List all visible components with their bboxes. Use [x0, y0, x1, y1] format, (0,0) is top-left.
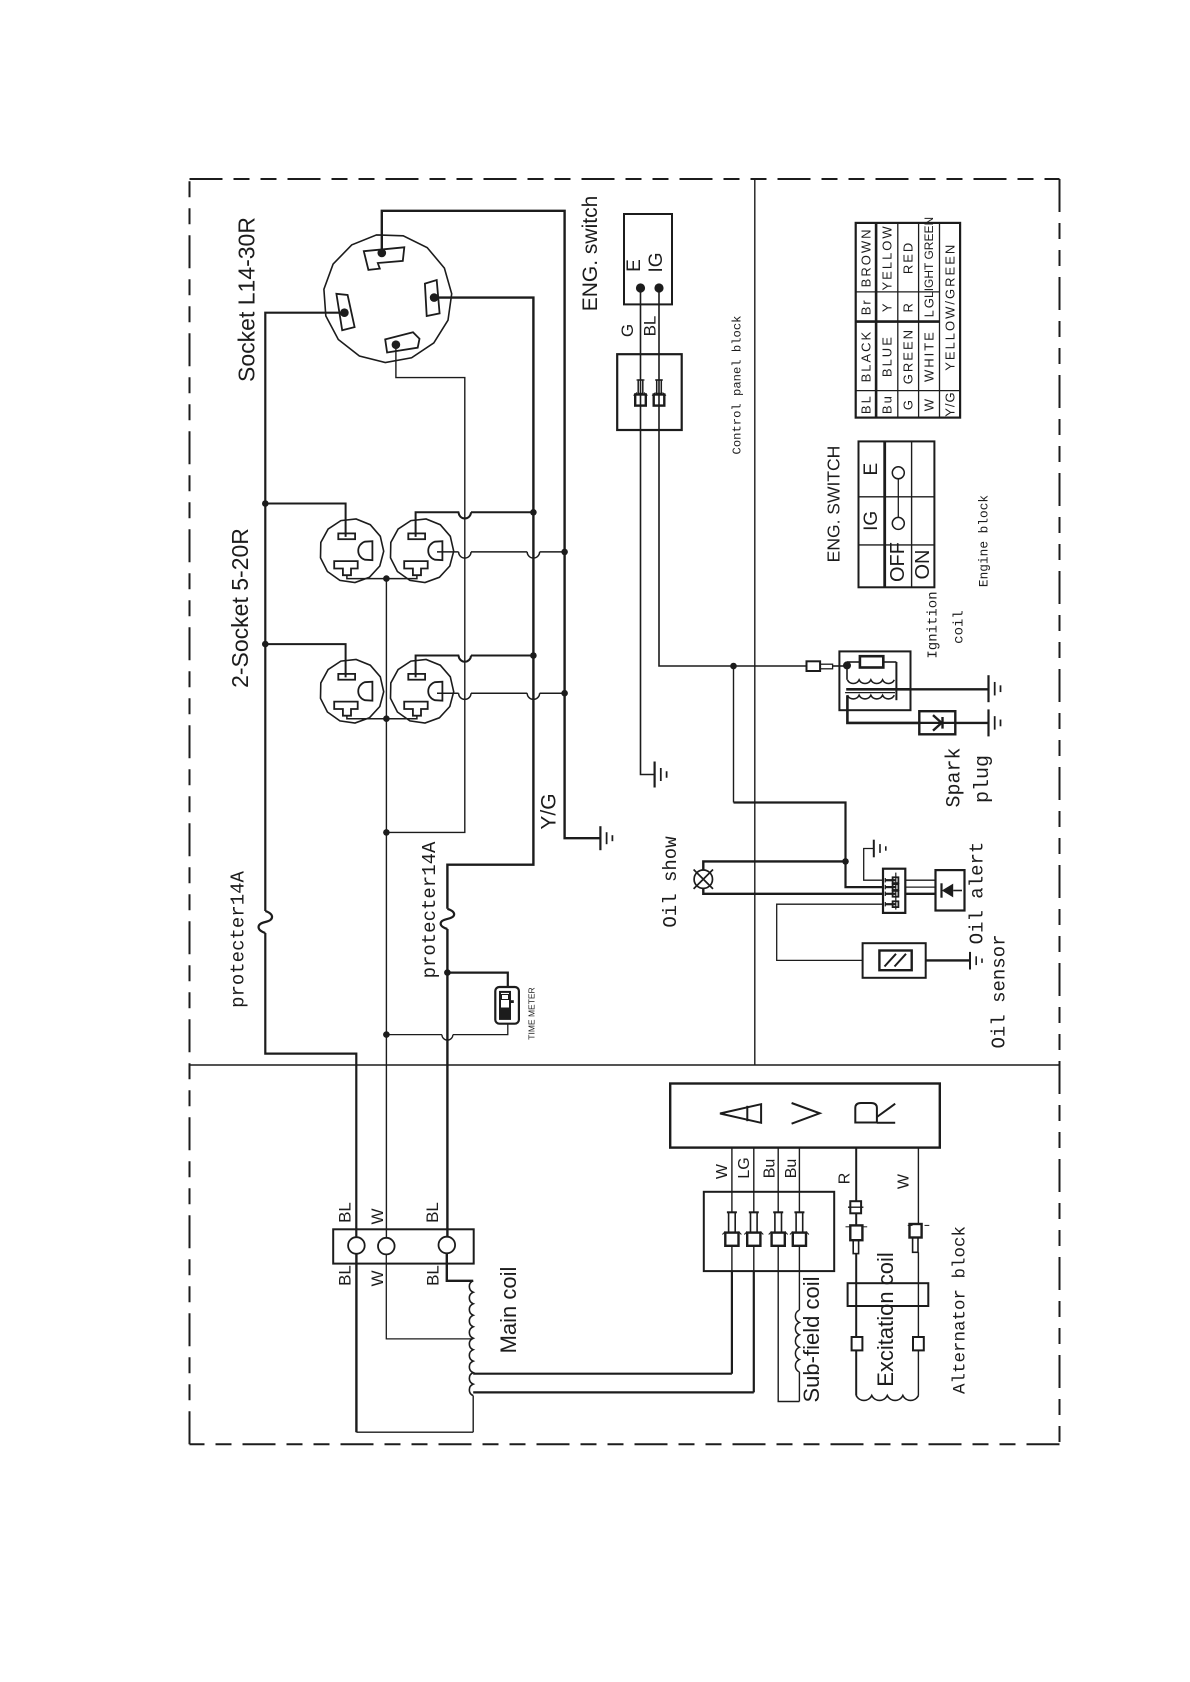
junction dots pair2	[262, 641, 269, 648]
L14-30R slot left	[336, 294, 354, 331]
junction dots pair1	[262, 500, 269, 507]
socket 5-20R pair1 left	[321, 519, 384, 583]
svg-text:W: W	[896, 1173, 913, 1189]
wire: pin4 to oil sensor	[777, 904, 883, 960]
svg-text:Y/G: Y/G	[942, 391, 957, 416]
svg-text:W: W	[368, 1208, 387, 1224]
wire W from AVR	[917, 1148, 919, 1224]
AVR letter A	[720, 1104, 761, 1123]
ground ignition	[987, 675, 989, 702]
svg-text:BLACK: BLACK	[858, 330, 873, 383]
oil connector pin	[884, 892, 886, 896]
connector pin G	[637, 379, 645, 381]
svg-text:Bu: Bu	[783, 1159, 800, 1179]
wire: L14 top slot to Y/G bus	[382, 211, 601, 838]
L14-30R slot L (top)	[364, 247, 405, 270]
svg-text:BL: BL	[858, 394, 873, 414]
oil connector pin	[884, 878, 886, 882]
svg-text:W: W	[368, 1270, 387, 1286]
svg-text:BLUE: BLUE	[879, 335, 894, 377]
svg-text:R: R	[901, 301, 916, 312]
ignition secondary left leg to spark plug	[847, 695, 920, 723]
svg-text:Br: Br	[858, 298, 873, 315]
wire: L14 right slot to BL bus	[434, 298, 533, 909]
oil show lamp	[694, 870, 712, 888]
ignition resistor	[846, 662, 848, 665]
R connector pair	[846, 1226, 851, 1228]
svg-text:G: G	[618, 324, 637, 337]
svg-text:LG: LG	[922, 296, 937, 317]
terminal dot E	[636, 283, 645, 292]
svg-text:G: G	[901, 398, 916, 410]
AVR letter R	[855, 1103, 877, 1123]
svg-text:BROWN: BROWN	[858, 227, 873, 287]
socket 5-20R pair2 right	[391, 660, 454, 724]
svg-text:coil: coil	[952, 610, 968, 644]
svg-text:protecter14A: protecter14A	[228, 870, 250, 1007]
AVR connector pin	[749, 1211, 759, 1213]
svg-text:LIGHT GREEN: LIGHT GREEN	[922, 217, 936, 298]
sub-field coil	[798, 1271, 800, 1310]
L14 terminal dots	[378, 249, 387, 258]
main coil tap to AVR W	[473, 1373, 732, 1375]
spark plug symbol	[933, 715, 942, 723]
svg-text:Bu: Bu	[879, 394, 894, 414]
socket 5-20R pair2 left	[321, 660, 384, 724]
wire: time meter bottom return	[453, 1024, 508, 1035]
svg-text:TIME METER: TIME METER	[527, 987, 537, 1039]
terminal circle 1	[348, 1237, 365, 1254]
oil connector pin	[884, 902, 886, 906]
wire: pair2 right top to BL bus	[416, 656, 460, 678]
svg-text:YELLOW/GREEN: YELLOW/GREEN	[942, 243, 957, 371]
svg-text:Bu: Bu	[762, 1159, 779, 1179]
svg-text:2-Socket 5-20R: 2-Socket 5-20R	[227, 528, 253, 688]
svg-text:Main coil: Main coil	[496, 1267, 521, 1354]
socket 5-20R pair1 right	[391, 519, 454, 583]
wire: junction to time meter top	[447, 973, 507, 987]
main coil tap to AVR LG	[473, 1391, 754, 1393]
svg-text:WHITE: WHITE	[922, 330, 937, 382]
connector block panel	[617, 354, 682, 430]
oil sensor box	[863, 943, 926, 978]
wires connector to oil alert	[905, 879, 935, 881]
ignition primary winding	[846, 665, 848, 679]
AVR output wires	[731, 1148, 733, 1213]
svg-text:E: E	[624, 259, 645, 272]
ground spark plug	[987, 709, 989, 736]
wire: pair1 T link	[347, 575, 417, 578]
svg-text:OFF: OFF	[887, 542, 909, 582]
terminal circle 3	[439, 1237, 456, 1254]
L14-30R slot bottom	[385, 332, 419, 352]
wire: L14 left slot to left bus	[265, 313, 344, 911]
svg-text:BL: BL	[336, 1265, 355, 1286]
svg-text:Ignition: Ignition	[926, 591, 942, 658]
wire: AVR pin3 to sub-field return	[778, 1271, 799, 1401]
ignition coil input dot	[843, 661, 851, 669]
oil alert diode	[942, 884, 953, 898]
protecter breaker (left)	[259, 911, 273, 933]
svg-text:Y/G: Y/G	[538, 793, 561, 829]
fuse box symbol on R	[850, 1201, 861, 1213]
wire: pair1 right top to BL bus	[416, 512, 460, 537]
svg-text:Control panel block: Control panel block	[731, 316, 745, 455]
wire BL to oil-circuit junction	[730, 663, 737, 670]
wire: lamp bottom to connector pin3	[703, 888, 883, 893]
bullet connector on BL wire	[807, 661, 821, 671]
wire: pair2 right D to YG bus	[437, 692, 459, 694]
svg-text:Oil alert: Oil alert	[967, 842, 989, 945]
svg-text:YELLOW: YELLOW	[879, 224, 894, 290]
svg-text:plug: plug	[972, 755, 995, 803]
AVR connector box	[704, 1192, 834, 1271]
ground for G wire	[653, 762, 655, 788]
ground oil connector	[873, 840, 875, 858]
svg-text:BL: BL	[424, 1265, 443, 1286]
svg-text:ENG. switch: ENG. switch	[579, 196, 602, 312]
block divider: alternator block top	[190, 1064, 1060, 1066]
AVR connector pin	[727, 1211, 737, 1213]
svg-text:Spark: Spark	[944, 747, 967, 807]
oil connector pin	[884, 885, 886, 889]
svg-text:IG: IG	[861, 511, 882, 531]
socket L14-30R outline	[324, 235, 452, 363]
spark plug box	[919, 711, 955, 734]
ground oil sensor	[969, 952, 971, 970]
excitation lower connectors	[852, 1337, 863, 1350]
switch contact circles	[892, 467, 904, 479]
svg-text:protecter14A: protecter14A	[419, 841, 441, 978]
svg-text:Socket L14-30R: Socket L14-30R	[234, 217, 260, 382]
svg-text:Excitation coil: Excitation coil	[873, 1252, 898, 1387]
AVR connector pin	[773, 1211, 783, 1213]
color code table	[856, 223, 960, 418]
protecter breaker (right)	[441, 909, 455, 929]
excitation wires through box	[855, 1283, 857, 1337]
svg-text:GREEN: GREEN	[901, 328, 916, 384]
wire: terminal1 down to main coil bottom	[355, 1254, 357, 1432]
excitation brush box	[848, 1283, 929, 1306]
wire: pair1 left top to left bus	[265, 504, 345, 537]
time meter box	[495, 987, 519, 1024]
ignition core	[846, 688, 910, 691]
svg-text:E: E	[861, 463, 882, 476]
ignition secondary winding	[847, 695, 894, 699]
wire: neutral bus x386	[385, 579, 387, 1238]
svg-text:LG: LG	[736, 1157, 753, 1178]
wire: pair2 T link	[347, 716, 417, 719]
oil alert box	[936, 870, 965, 910]
block divider: control panel / engine	[754, 179, 756, 1065]
svg-text:W: W	[714, 1163, 731, 1179]
ground Y/G	[599, 826, 601, 850]
oil connector block	[883, 869, 905, 913]
AVR letter V	[792, 1103, 820, 1124]
wire: pair2 left top to left bus	[265, 644, 345, 677]
terminal dot IG	[654, 283, 663, 292]
wire: pin1 to ground	[864, 849, 883, 881]
svg-text:BL: BL	[641, 316, 660, 337]
tap risers	[731, 1271, 733, 1374]
wire: terminal3 to main coil top	[447, 1253, 473, 1281]
excitation coil winding	[855, 1350, 857, 1395]
spark plug ground wire	[955, 722, 988, 724]
wire: left bus lower	[265, 933, 356, 1237]
connector pin BL	[655, 379, 663, 381]
svg-text:ENG. SWITCH: ENG. SWITCH	[824, 446, 844, 563]
wire: pair1 right D to YG bus	[437, 551, 459, 553]
svg-text:BL: BL	[423, 1202, 442, 1223]
terminal strip box	[333, 1229, 474, 1263]
svg-text:W: W	[922, 397, 937, 411]
svg-text:IG: IG	[646, 252, 667, 272]
ignition coil ground wire	[911, 688, 989, 690]
W connector pair	[908, 1224, 913, 1226]
wire: terminal2 to main coil center tap	[386, 1254, 473, 1339]
svg-text:R: R	[836, 1173, 853, 1185]
svg-text:Y: Y	[879, 301, 894, 312]
ignition coil box	[839, 651, 910, 710]
svg-text:BL: BL	[336, 1202, 355, 1223]
wire: junction down to terminal 3	[446, 973, 448, 1237]
terminal circle 2	[378, 1238, 395, 1255]
wire R from AVR	[855, 1148, 857, 1202]
wire BL from IG terminal	[659, 288, 807, 666]
wire G from E terminal	[641, 288, 655, 775]
svg-text:Oil sensor: Oil sensor	[989, 934, 1011, 1048]
wire: oil sensor to ground	[926, 959, 970, 961]
main coil winding	[469, 1281, 473, 1396]
wire: breaker to junction	[446, 929, 448, 973]
ENG. switch box	[624, 214, 672, 304]
wire: junction down to oil connector	[733, 666, 735, 803]
wire: lamp top to connector net	[703, 861, 845, 870]
svg-text:Oil show: Oil show	[660, 836, 682, 928]
junction dot protecter/time meter	[444, 969, 451, 976]
ignition primary right leg	[895, 662, 897, 700]
AVR connector pin	[794, 1211, 804, 1213]
AVR box	[670, 1084, 940, 1148]
svg-text:Alternator block: Alternator block	[951, 1226, 971, 1394]
wire: L14 bottom slot to neutral bus	[386, 345, 464, 833]
svg-text:Engine block: Engine block	[977, 495, 992, 587]
svg-text:RED: RED	[901, 241, 916, 274]
L14-30R slot right	[425, 280, 440, 316]
svg-text:Sub-field coil: Sub-field coil	[799, 1277, 824, 1403]
svg-text:ON: ON	[912, 550, 934, 580]
ENG. SWITCH table	[859, 441, 935, 587]
border frame dashed	[190, 178, 1060, 180]
